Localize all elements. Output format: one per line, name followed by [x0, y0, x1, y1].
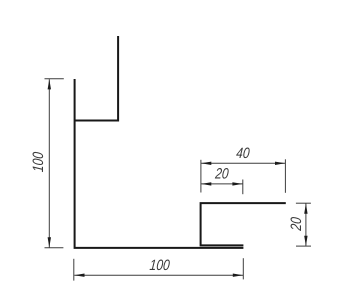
svg-text:40: 40: [236, 145, 251, 162]
svg-text:20: 20: [214, 165, 230, 182]
svg-text:100: 100: [149, 257, 171, 274]
svg-text:20: 20: [288, 216, 305, 232]
svg-text:100: 100: [30, 151, 47, 173]
